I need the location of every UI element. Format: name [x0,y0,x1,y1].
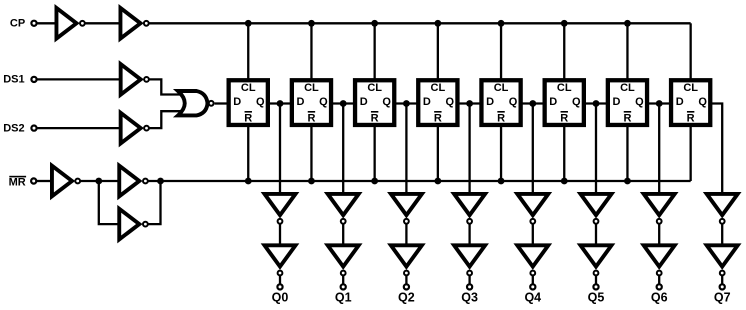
wire Q2 to next stage [394,102,419,104]
svg-text:D: D [676,96,684,108]
junction MR node [95,178,102,185]
wire node to C2 [99,180,119,182]
svg-text:CL: CL [367,82,382,94]
svg-text:D: D [360,96,368,108]
junction node Q1 [340,100,347,107]
inverter D2a (Q1 chain) [328,194,359,224]
svg-text:CL: CL [494,82,509,94]
svg-text:Q: Q [635,96,644,108]
junction node Q0 [277,100,284,107]
wire CL drop FF8 [690,23,692,80]
svg-text:Q7: Q7 [714,291,731,305]
svg-text:D: D [423,96,431,108]
inverter C3 (MR lower) [119,209,148,240]
wire clock bus [149,22,691,24]
svg-text:Q: Q [698,96,707,108]
terminal Q7 [720,284,725,289]
svg-text:R: R [371,112,379,124]
junction node Q5 [593,100,600,107]
label Q5 [588,291,605,305]
wire CL drop FF3 [373,23,375,80]
wire Q5 chain mid [595,224,597,245]
inverter D4a (Q3 chain) [454,194,485,224]
terminal Q3 [467,284,472,289]
wire DS1 input [37,78,120,80]
wire Q1 to next stage [331,102,356,104]
wire R drop FF7 [626,124,628,181]
junction clock bus to FF2 [308,20,315,27]
wire R drop FF3 [373,124,375,181]
wire Q6 drop [658,104,660,194]
wire CL drop FF4 [437,23,439,80]
svg-text:Q5: Q5 [588,291,605,305]
inverter D3b (Q2 chain) [391,245,422,275]
svg-text:R: R [497,112,505,124]
wire Q7 drop [710,104,722,194]
inverter D3a (Q2 chain) [391,194,422,224]
svg-text:D: D [549,96,557,108]
terminal Q1 [341,284,346,289]
terminal MR [31,178,36,183]
D flip-flop FF4 [418,80,457,125]
label DS2 [3,122,24,134]
label CP [10,17,25,29]
inverter D2b (Q1 chain) [328,245,359,275]
wire Q0 chain out [279,276,281,284]
junction clock bus to FF5 [498,20,505,27]
wire Q1 drop [342,104,344,194]
label Q7 [714,291,731,305]
label Q4 [524,291,541,305]
inverter B1 (DS1) [121,64,149,95]
terminal Q0 [277,284,282,289]
inverter D5b (Q4 chain) [517,245,548,275]
wire Q3 chain mid [468,224,470,245]
junction node Q6 [656,100,663,107]
svg-text:R: R [434,112,442,124]
junction reset bus to FF2 [308,178,315,185]
wire Q4 to next stage [521,102,546,104]
wire CL drop FF6 [563,23,565,80]
terminal CP [31,21,36,26]
wire MR input [37,180,52,182]
wire Q5 drop [595,104,597,194]
junction node Q3 [466,100,473,107]
svg-text:Q: Q [572,96,581,108]
wire Q6 chain mid [658,224,660,245]
buffer inverter A2 (CP) [120,8,148,39]
svg-text:D: D [613,96,621,108]
svg-text:R: R [244,112,252,124]
D flip-flop FF1 [229,80,268,125]
wire Q6 to next stage [647,102,672,104]
D flip-flop FF8 [671,80,710,125]
inverter D6b (Q5 chain) [581,245,612,275]
D flip-flop FF2 [292,80,331,125]
wire Q6 chain out [658,276,660,284]
wire R drop FF1 [247,124,249,181]
inverter D5a (Q4 chain) [517,194,548,224]
wire DS2 to gate [149,111,184,128]
junction reset bus to FF6 [561,178,568,185]
wire Q0 chain mid [279,224,281,245]
wire Q5 to next stage [584,102,609,104]
wire C3 output up [148,181,160,224]
svg-text:Q: Q [319,96,328,108]
terminal DS1 [31,77,36,82]
junction reset bus to FF7 [624,178,631,185]
terminal Q2 [404,284,409,289]
wire node to C3 [99,181,119,224]
wire Q4 drop [532,104,534,194]
svg-text:CL: CL [683,82,698,94]
wire CP input [37,22,57,24]
svg-text:Q: Q [509,96,518,108]
junction reset bus to FF4 [434,178,441,185]
wire CL drop FF1 [247,23,249,80]
label Q2 [398,291,415,305]
label Q3 [461,291,478,305]
svg-text:Q2: Q2 [398,291,415,305]
wire Q0 to next stage [268,102,293,104]
label DS1 [3,74,24,86]
junction reset bus to FF5 [498,178,505,185]
wire Q2 chain mid [405,224,407,245]
svg-text:R: R [623,112,631,124]
svg-text:D: D [297,96,305,108]
inverter C1 (MR) [52,166,80,197]
svg-text:D: D [233,96,241,108]
wire R drop FF4 [437,124,439,181]
svg-text:DS1: DS1 [3,74,24,86]
terminal DS2 [31,126,36,131]
junction node Q4 [529,100,536,107]
inverter D8b (Q7 chain) [707,245,738,275]
wire DS2 input [37,127,120,129]
junction clock bus to FF7 [624,20,631,27]
NOR gate G1 (DS1+DS2) [178,91,214,115]
junction clock bus to FF4 [434,20,441,27]
D flip-flop FF5 [481,80,520,125]
inverter D1b (Q0 chain) [265,245,296,275]
wire Q3 to next stage [458,102,483,104]
svg-text:Q0: Q0 [272,291,289,305]
svg-text:R: R [687,112,695,124]
svg-text:Q: Q [446,96,455,108]
svg-text:D: D [486,96,494,108]
wire gate output to FF1 D [215,102,229,104]
svg-text:CP: CP [10,17,25,29]
svg-text:Q: Q [256,96,265,108]
inverter D7b (Q6 chain) [644,245,675,275]
svg-text:CL: CL [304,82,319,94]
svg-text:CL: CL [241,82,256,94]
D flip-flop FF3 [355,80,394,125]
wire CL drop FF5 [500,23,502,80]
D flip-flop FF7 [608,80,647,125]
svg-text:Q6: Q6 [651,291,668,305]
wire C1 to node [81,180,99,182]
svg-text:CL: CL [431,82,446,94]
svg-text:R: R [307,112,315,124]
wire Q1 chain mid [342,224,344,245]
junction MR bus node [157,178,164,185]
wire R drop FF2 [310,124,312,181]
inverter D1a (Q0 chain) [265,194,296,224]
svg-text:R: R [560,112,568,124]
svg-text:MR: MR [9,177,26,189]
inverter D7a (Q6 chain) [644,194,675,224]
wire Q2 drop [405,104,407,194]
svg-text:Q4: Q4 [524,291,541,305]
svg-text:CL: CL [557,82,572,94]
wire Q7 chain mid [721,224,723,245]
wire R drop FF8 [690,124,692,181]
wire Q3 chain out [468,276,470,284]
inverter D8a (Q7 chain) [707,194,738,224]
inverter B2 (DS2) [121,113,149,144]
terminal Q4 [530,284,535,289]
junction clock bus to FF1 [245,20,252,27]
wire Q2 chain out [405,276,407,284]
wire Q3 drop [468,104,470,194]
svg-text:Q1: Q1 [335,291,352,305]
junction clock bus to FF3 [371,20,378,27]
wire A1 to A2 [85,22,120,24]
wire Q1 chain out [342,276,344,284]
wire Q7 chain out [721,276,723,284]
wire Q4 chain out [532,276,534,284]
wire CL drop FF2 [310,23,312,80]
svg-text:Q: Q [382,96,391,108]
terminal Q5 [593,284,598,289]
inverter D6a (Q5 chain) [581,194,612,224]
terminal Q6 [657,284,662,289]
wire reset bus [148,180,690,182]
inverter D4b (Q3 chain) [454,245,485,275]
junction clock bus to FF6 [561,20,568,27]
buffer inverter A1 (CP) [56,8,84,39]
svg-text:DS2: DS2 [3,122,24,134]
label Q1 [335,291,352,305]
inverter C2 (MR upper) [119,166,148,197]
wire R drop FF6 [563,124,565,181]
D flip-flop FF6 [545,80,584,125]
wire Q0 drop [279,104,281,194]
svg-text:Q3: Q3 [461,291,478,305]
wire Q5 chain out [595,276,597,284]
junction reset bus to FF3 [371,178,378,185]
label Q6 [651,291,668,305]
junction node Q2 [403,100,410,107]
label MR (overline) [9,176,27,189]
wire DS1 to gate [149,79,184,94]
junction reset bus to FF1 [245,178,252,185]
label Q0 [272,291,289,305]
wire Q4 chain mid [532,224,534,245]
svg-text:CL: CL [620,82,635,94]
wire CL drop FF7 [626,23,628,80]
wire R drop FF5 [500,124,502,181]
